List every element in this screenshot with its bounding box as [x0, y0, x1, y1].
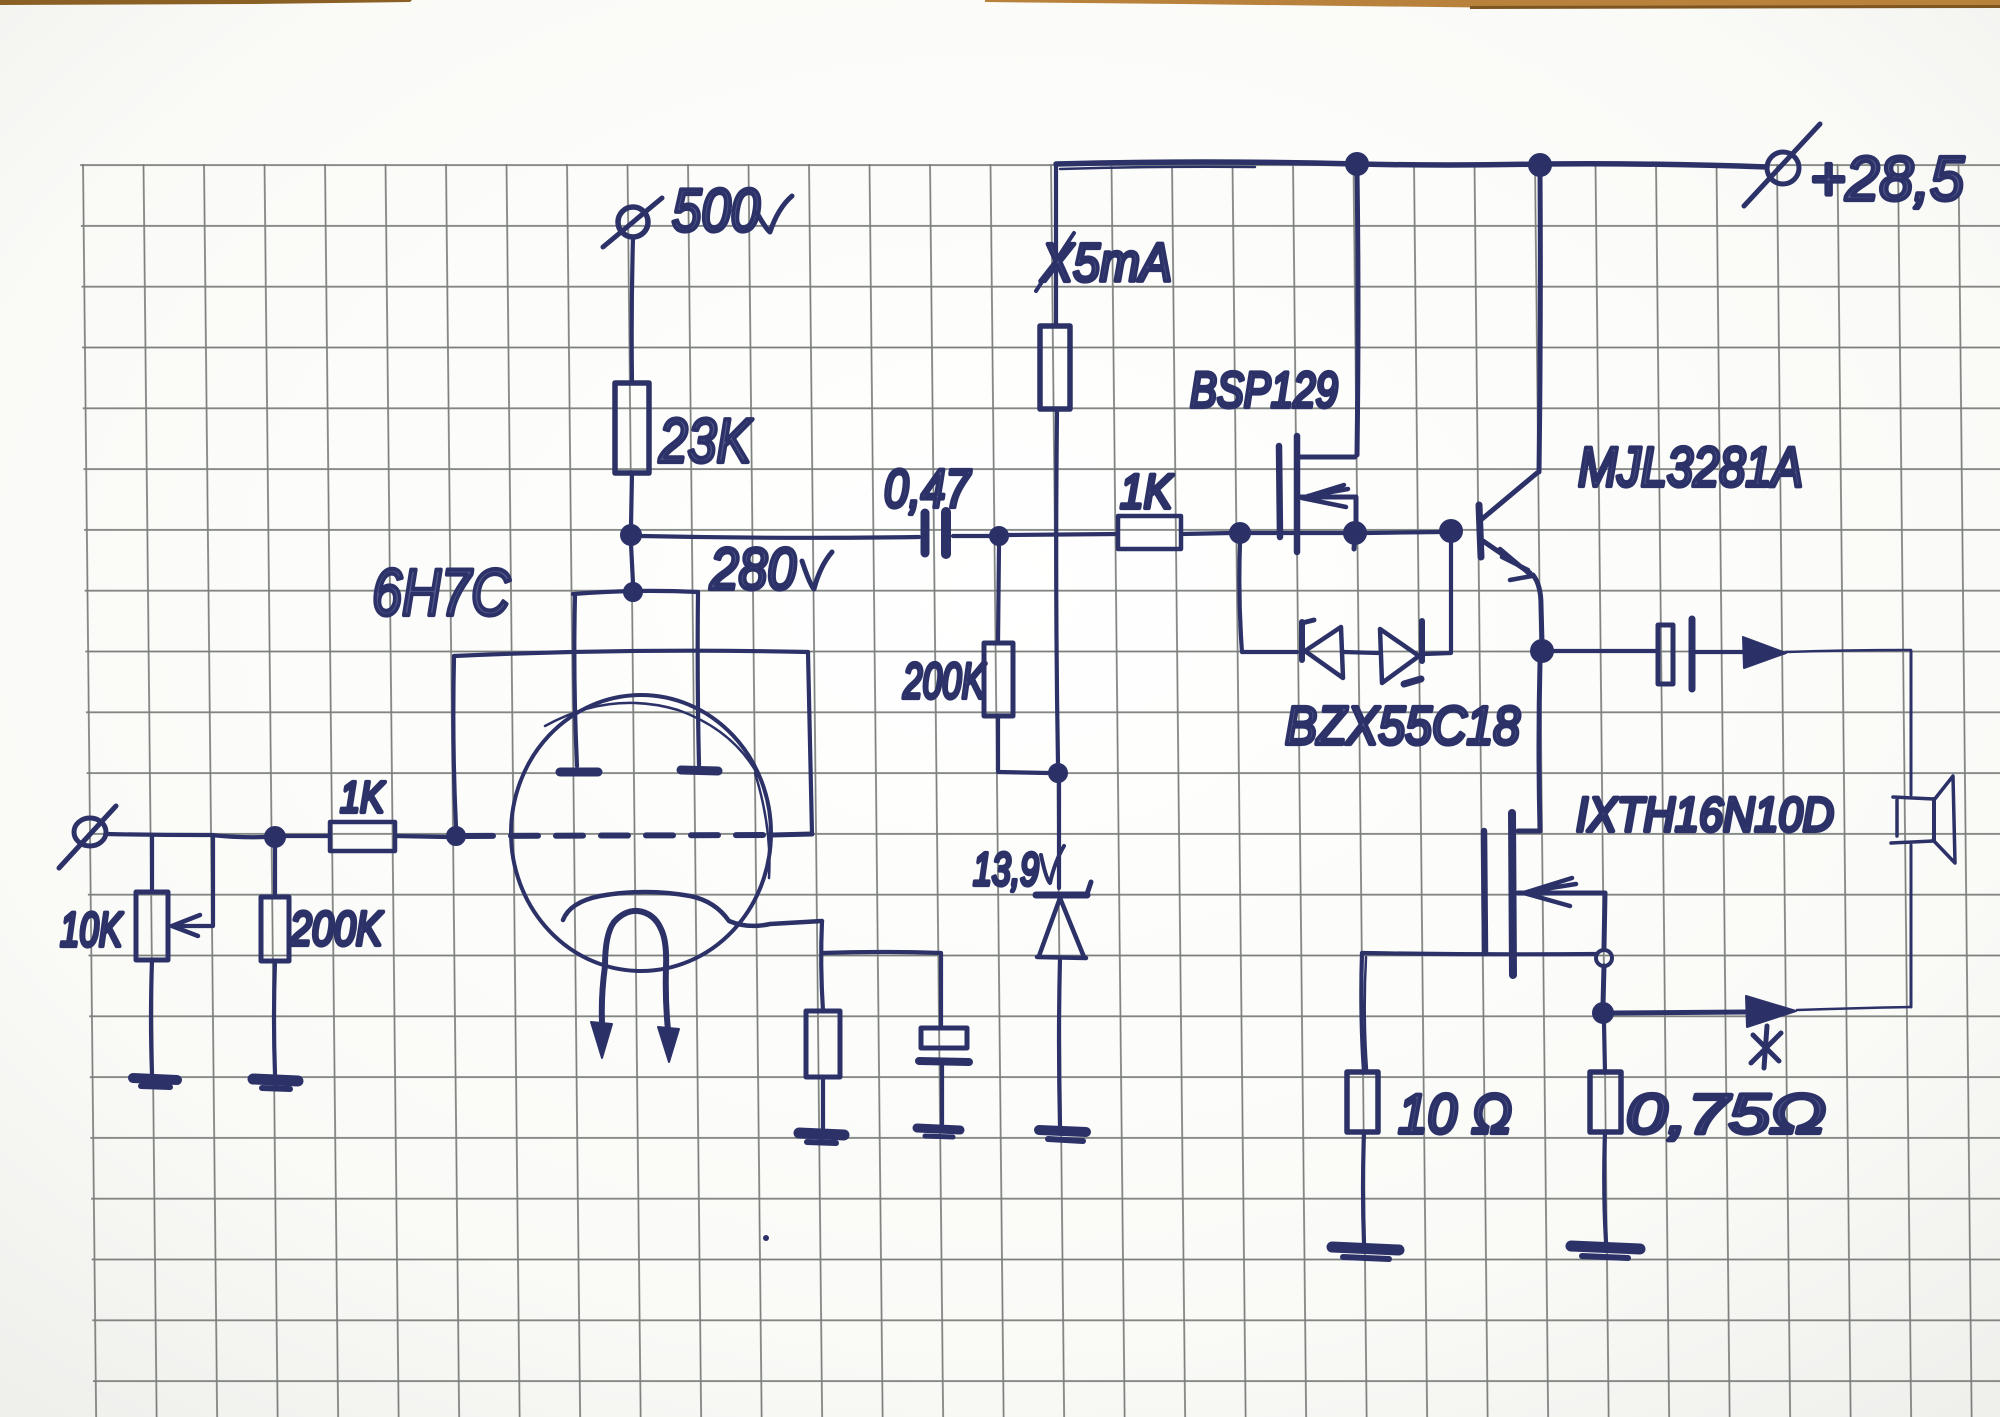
- svg-text:280: 280: [709, 537, 796, 602]
- wire node C down to anode tee: [631, 544, 633, 583]
- IXTH source with arrow: [1518, 878, 1605, 948]
- node 200K top: [990, 527, 1008, 545]
- wire between zeners: [1344, 652, 1378, 653]
- heater arc: [605, 911, 666, 967]
- wire 1K to gate node: [1181, 533, 1231, 534]
- node small circle: [1596, 950, 1612, 966]
- resistor 1K (gate) body: [1118, 516, 1181, 549]
- svg-text:10 Ω: 10 Ω: [1398, 1082, 1512, 1145]
- wire node to 1K: [285, 834, 330, 838]
- svg-text:200K: 200K: [289, 903, 383, 956]
- wire rail to 5mA source: [1054, 166, 1058, 326]
- wire to left zener: [1242, 650, 1297, 654]
- MJL3281A emitter with arrow: [1483, 541, 1542, 642]
- svg-text:6Н7С: 6Н7С: [372, 555, 511, 629]
- wire 23K to node: [631, 473, 632, 526]
- svg-text:13,9: 13,9: [973, 843, 1039, 895]
- wire pot tap to node: [211, 835, 266, 837]
- wire 500V to 23K: [632, 238, 633, 383]
- wire 5mA down to bias node: [1056, 409, 1058, 764]
- resistor 10 ohm top lead: [1361, 953, 1367, 1072]
- resistor 0,75 ohm bottom lead: [1604, 1132, 1606, 1242]
- current source 5mA body: [1040, 326, 1070, 409]
- wire gate to 10 ohm: [1362, 953, 1597, 954]
- ground (10 ohm): [1332, 1247, 1399, 1259]
- wire 200K to 5mA node: [998, 772, 1048, 773]
- svg-text:X5mA: X5mA: [1039, 233, 1172, 293]
- MJL3281A collector: [1482, 170, 1540, 519]
- node rail BSP129: [1346, 153, 1368, 175]
- svg-text:200K: 200K: [902, 653, 987, 709]
- ground (zener): [1039, 1130, 1086, 1141]
- wire right zener to base node: [1424, 542, 1451, 654]
- bypass cap bottom lead: [940, 1064, 944, 1124]
- node output: [1531, 640, 1553, 662]
- plate bar left: [560, 768, 598, 777]
- wire speaker bottom vertical: [1910, 845, 1913, 1007]
- wire anode right: [698, 592, 699, 765]
- diode BZX55C18 right (triangle): [1380, 629, 1419, 683]
- wire speaker top vertical: [1910, 651, 1913, 795]
- node gate: [1230, 523, 1250, 543]
- resistor 10 ohm body: [1347, 1072, 1378, 1132]
- node rail MJL: [1529, 154, 1551, 176]
- wire circle to source node: [1603, 966, 1604, 1005]
- ground (cathode resistor): [799, 1133, 844, 1143]
- BSP129 drain: [1300, 170, 1358, 457]
- BSP129 source with arrow: [1300, 485, 1356, 524]
- svg-text:1K: 1K: [1120, 466, 1174, 519]
- grid dashed line: [466, 835, 772, 836]
- potentiometer 10K wiper: [172, 835, 213, 936]
- svg-text:0,75Ω: 0,75Ω: [1626, 1082, 1826, 1145]
- grid tie top wire: [454, 651, 808, 656]
- ground (pot): [133, 1078, 177, 1087]
- wire cathode to bypass cap: [822, 952, 941, 953]
- resistor 0,75 ohm body: [1590, 1072, 1621, 1132]
- potentiometer 10K top lead: [150, 835, 154, 892]
- resistor 200K (input) bottom lead: [274, 961, 275, 1074]
- resistor 23K body: [615, 383, 649, 473]
- cathode: [563, 892, 822, 926]
- resistor 0,75 ohm top lead: [1604, 1023, 1605, 1072]
- arrow output: [1743, 637, 1786, 668]
- ground (0,75 ohm): [1571, 1246, 1640, 1258]
- speaker: [1891, 776, 1955, 863]
- svg-text:IXTH16N10D: IXTH16N10D: [1576, 789, 1834, 842]
- grid tie left vertical: [453, 656, 456, 827]
- ground (bypass cap): [917, 1128, 960, 1137]
- grid tie right vertical: [808, 652, 812, 834]
- wire anode tee horizontal: [573, 591, 698, 594]
- transistor MJL3281A base bar: [1479, 505, 1481, 557]
- wire source node to base node: [1366, 532, 1441, 533]
- wire gate node down to zener pair: [1239, 543, 1242, 652]
- label X5mA: [1036, 233, 1172, 293]
- bypass cap top lead: [939, 953, 943, 1028]
- terminal 500V: [603, 198, 662, 247]
- potentiometer 10K bottom lead: [151, 960, 152, 1074]
- ground (200K input): [253, 1079, 298, 1089]
- diode BZX55C18 right (cathode bar): [1404, 621, 1422, 684]
- node source: [1344, 522, 1366, 549]
- wire thin to speaker top: [1786, 650, 1911, 652]
- wire output node down to IXTH drain: [1539, 662, 1540, 830]
- label 500V: [672, 177, 792, 244]
- heater left leg with arrow: [591, 966, 612, 1058]
- wire bias node to zener: [1057, 782, 1061, 888]
- node anode tee: [624, 583, 642, 601]
- resistor cathode body: [806, 1011, 840, 1077]
- wire node to 1K gate resistor: [1008, 534, 1118, 535]
- wire anode left: [574, 594, 577, 766]
- wire output node to cap: [1553, 649, 1656, 653]
- wire 1K to grid node: [395, 836, 447, 837]
- power rail +28,5: [1056, 162, 1767, 169]
- resistor 200K (mid) top lead: [998, 545, 999, 643]
- transistor IXTH16N10D channel bar: [1512, 813, 1513, 975]
- svg-text:+28,5: +28,5: [1810, 145, 1964, 214]
- node base: [1440, 520, 1462, 542]
- wire bottom output: [1613, 1012, 1745, 1013]
- resistor 200K (mid) body: [984, 643, 1013, 716]
- input terminal: [59, 806, 116, 868]
- table edge stripe top-right: [985, 0, 2000, 8]
- arrow bottom output: [1746, 996, 1796, 1027]
- wire cap to node: [953, 534, 990, 538]
- svg-text:10K: 10K: [60, 904, 123, 957]
- node bias junction: [1049, 764, 1067, 782]
- resistor 200K (mid) bottom lead: [996, 716, 1000, 770]
- capacitor bypass top plate: [921, 1028, 967, 1048]
- svg-text:0,47: 0,47: [884, 459, 972, 519]
- capacitor 0,47: [925, 512, 946, 554]
- svg-text:MJL3281A: MJL3281A: [1578, 435, 1803, 498]
- tube 6N7S envelope: [511, 695, 771, 971]
- wire input to pot tap: [106, 834, 211, 835]
- node source IXTH: [1593, 1003, 1613, 1023]
- svg-text:500: 500: [672, 177, 760, 244]
- table edge stripe top-left: [0, 0, 412, 5]
- zener diode 13,9V: [1036, 882, 1091, 958]
- transistor IXTH16N10D gate bar: [1484, 831, 1485, 953]
- resistor 10 ohm bottom lead: [1363, 1132, 1364, 1243]
- asterisk: [1751, 1026, 1781, 1068]
- svg-text:23K: 23K: [658, 407, 753, 476]
- wire thin to speaker bottom: [1797, 1007, 1910, 1010]
- transistor BSP129 channel bar: [1294, 436, 1301, 552]
- wire gate node to source node: [1250, 531, 1346, 535]
- wire cap to arrow: [1695, 650, 1744, 654]
- diode BZX55C18 left (cathode bar): [1302, 620, 1314, 660]
- node input junction: [265, 827, 285, 847]
- zener bottom lead: [1059, 958, 1060, 1126]
- IXTH drain lead: [1518, 829, 1540, 834]
- node 280V: [621, 525, 641, 545]
- resistor 200K (input) top lead: [273, 847, 277, 897]
- resistor 1K (grid stopper) body: [330, 822, 395, 851]
- label 280V: [709, 537, 832, 602]
- speck: [763, 1235, 769, 1241]
- grid line solid right end: [772, 834, 812, 835]
- resistor 200K (input) body: [261, 897, 289, 961]
- terminal +28,5: [1744, 124, 1820, 206]
- wire coupling (node to 0,47 cap): [641, 536, 919, 538]
- capacitor output: [1658, 619, 1692, 689]
- capacitor bypass bottom plate: [919, 1061, 969, 1062]
- svg-text:1K: 1K: [340, 773, 385, 822]
- svg-text:BZX55C18: BZX55C18: [1285, 696, 1520, 756]
- label 13,9V: [973, 843, 1064, 895]
- cathode resistor bottom lead: [821, 1077, 825, 1128]
- cathode lead down to resistor: [821, 921, 823, 1011]
- transistor BSP129 gate bar: [1279, 446, 1280, 537]
- svg-text:BSP129: BSP129: [1190, 362, 1338, 418]
- node grid junction: [447, 827, 465, 845]
- heater right leg with arrow: [658, 967, 679, 1062]
- diode BZX55C18 left (triangle): [1305, 627, 1343, 678]
- potentiometer 10K body: [136, 892, 168, 960]
- plate bar right: [681, 770, 718, 771]
